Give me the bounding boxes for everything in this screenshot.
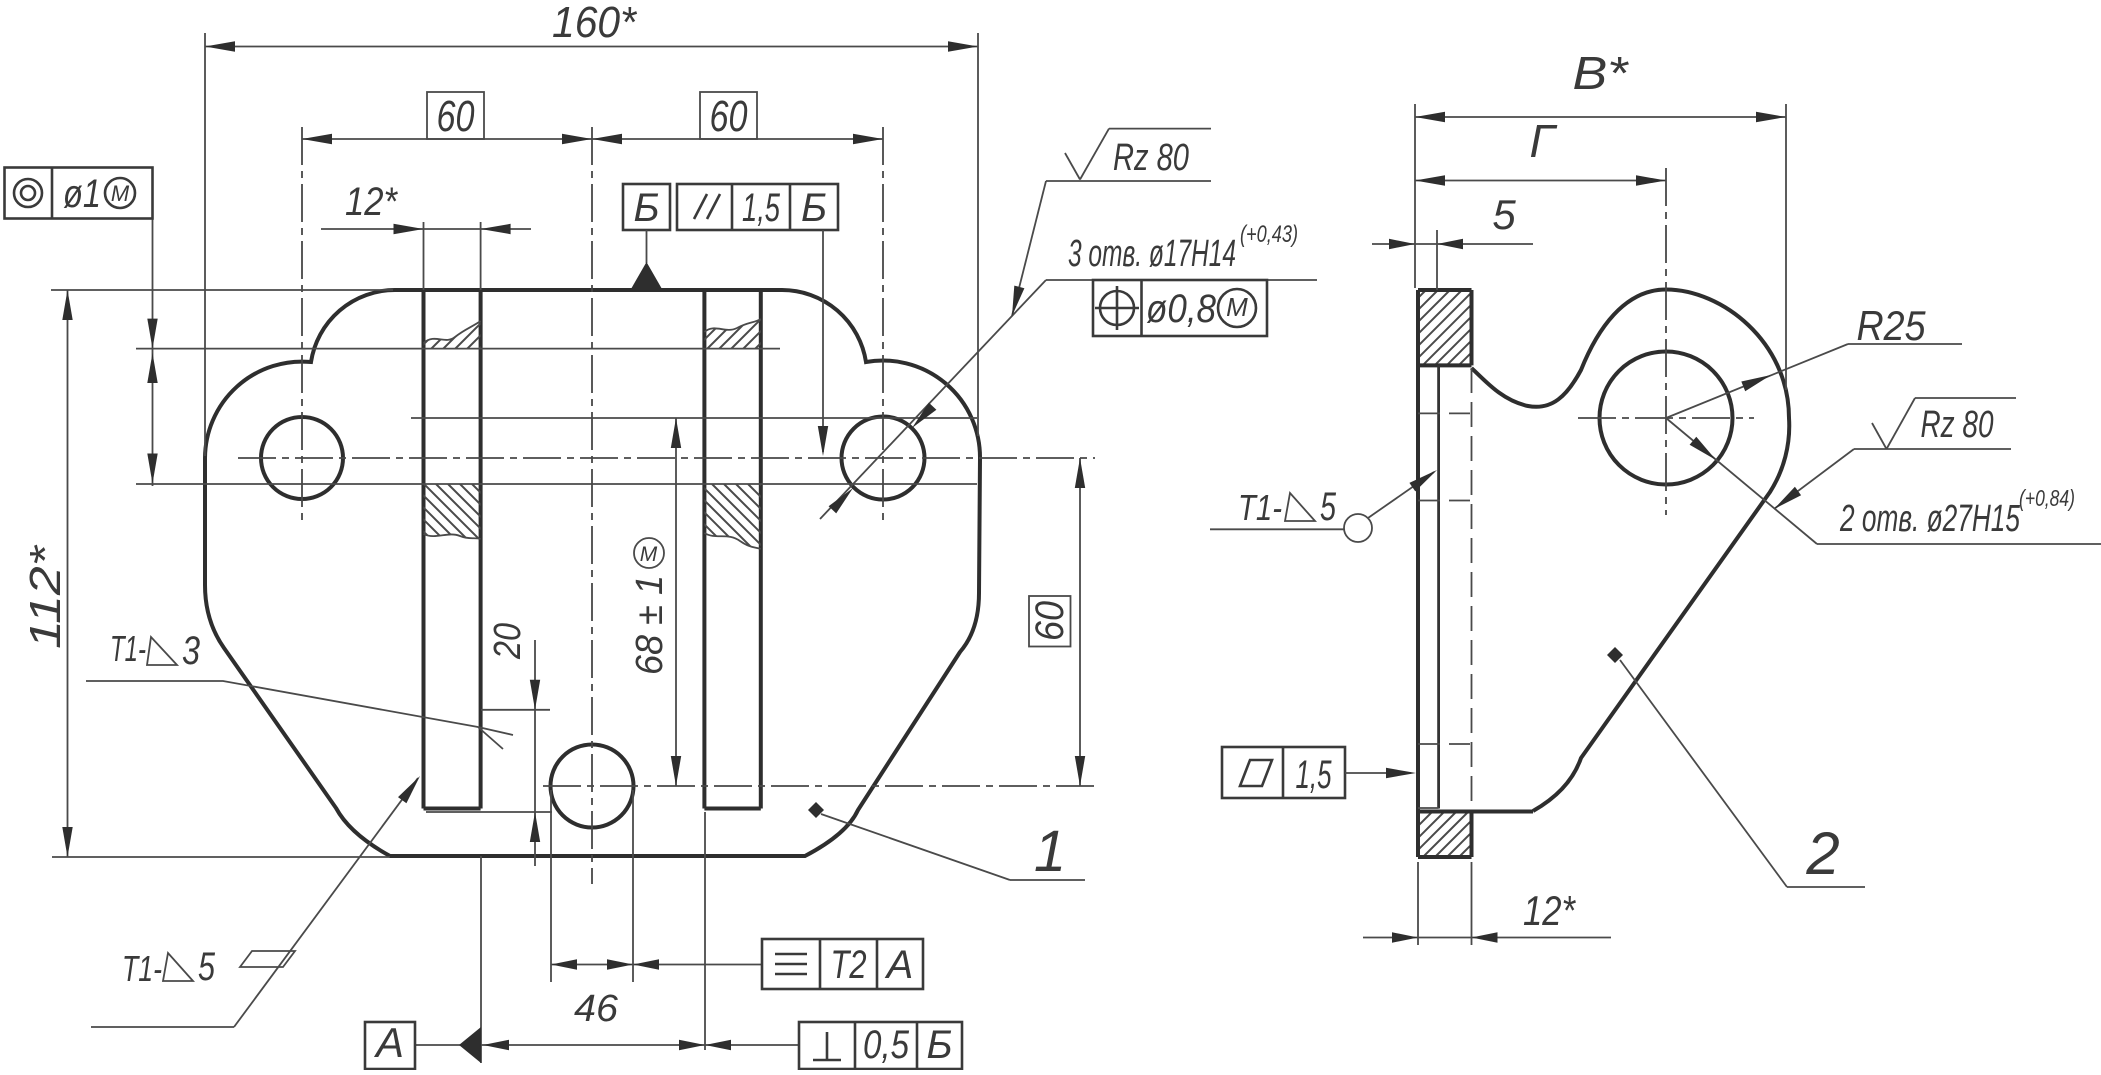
- svg-text:112*: 112*: [21, 544, 70, 649]
- svg-text:5: 5: [198, 945, 216, 989]
- svg-text:5: 5: [1320, 485, 1337, 529]
- svg-text:160*: 160*: [552, 0, 638, 47]
- svg-text:M: M: [640, 543, 658, 566]
- svg-text:12*: 12*: [1523, 887, 1576, 934]
- svg-text:60: 60: [710, 92, 748, 141]
- svg-text:Т1-: Т1-: [1238, 487, 1282, 528]
- svg-text:2 отв. ø27H15: 2 отв. ø27H15: [1839, 498, 2020, 540]
- svg-text:1: 1: [1034, 819, 1066, 884]
- svg-text:M: M: [111, 181, 130, 206]
- svg-text:ø1: ø1: [63, 172, 101, 216]
- svg-text:46: 46: [574, 988, 619, 1030]
- svg-text:1,5: 1,5: [1296, 753, 1332, 797]
- svg-text:R25: R25: [1857, 302, 1927, 349]
- svg-text:Б: Б: [926, 1023, 952, 1067]
- svg-text:20: 20: [487, 623, 529, 660]
- svg-text:3 отв. ø17H14: 3 отв. ø17H14: [1068, 233, 1236, 275]
- svg-text:3: 3: [182, 629, 200, 673]
- svg-text:Т2: Т2: [831, 943, 867, 987]
- svg-text:В*: В*: [1573, 47, 1630, 99]
- svg-text:Г: Г: [1529, 115, 1557, 167]
- svg-text:Т1-: Т1-: [110, 628, 146, 669]
- svg-text:0,5: 0,5: [863, 1023, 910, 1067]
- svg-text:5: 5: [1492, 191, 1516, 238]
- svg-text:M: M: [1226, 292, 1248, 322]
- svg-text:А: А: [373, 1019, 404, 1066]
- svg-text:(+0,84): (+0,84): [2019, 485, 2075, 511]
- svg-text:ø0,8: ø0,8: [1146, 287, 1217, 331]
- svg-text:Б: Б: [801, 186, 827, 230]
- svg-text:Т1-: Т1-: [122, 948, 162, 989]
- svg-text:Б: Б: [633, 186, 659, 230]
- svg-text:60: 60: [437, 92, 475, 141]
- svg-text:Rz 80: Rz 80: [1113, 137, 1189, 179]
- svg-text:60: 60: [1028, 601, 1072, 641]
- svg-text:12*: 12*: [345, 180, 398, 224]
- svg-text:1,5: 1,5: [742, 186, 781, 230]
- svg-text:Rz 80: Rz 80: [1921, 404, 1994, 446]
- svg-text:68 ± 1: 68 ± 1: [629, 575, 671, 675]
- svg-text:2: 2: [1805, 820, 1839, 887]
- svg-text:(+0,43): (+0,43): [1240, 221, 1298, 248]
- svg-text:А: А: [885, 943, 914, 987]
